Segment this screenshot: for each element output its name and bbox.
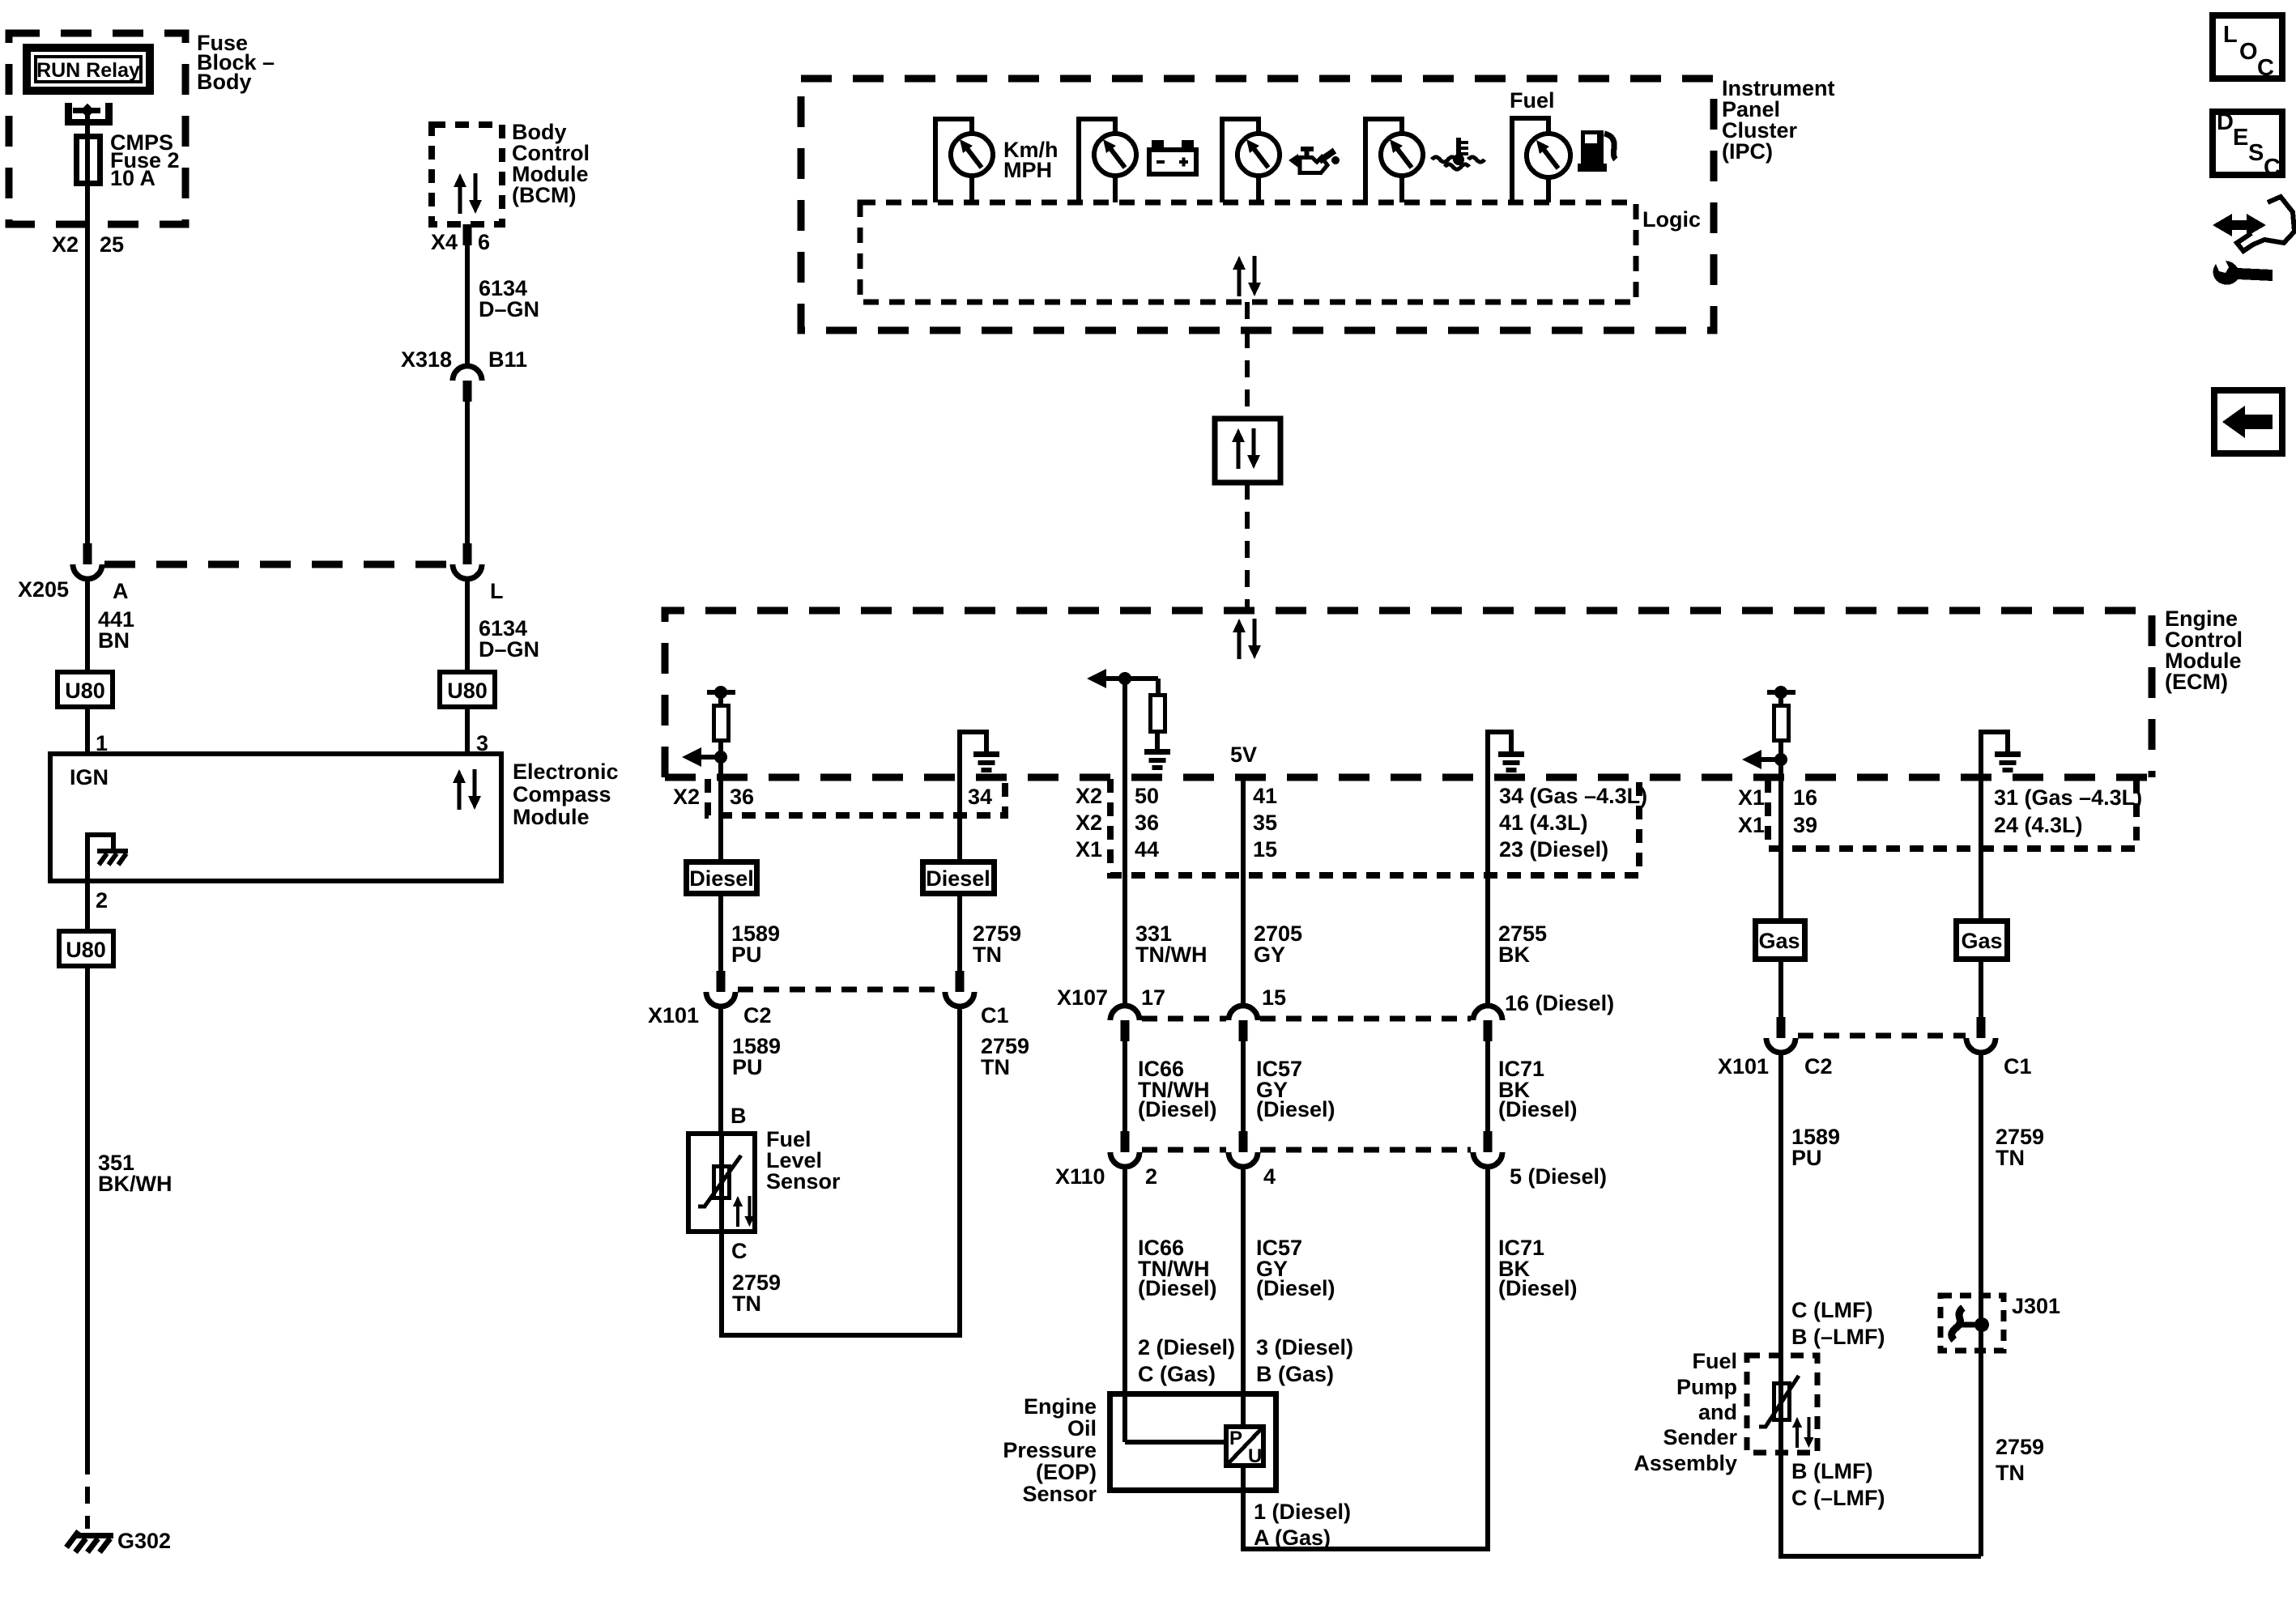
svg-text:Module: Module <box>513 805 590 829</box>
wire IC57 GY jumper <box>1241 1040 1246 1133</box>
svg-text:B (LMF): B (LMF) <box>1791 1459 1872 1483</box>
svg-text:Assembly: Assembly <box>1634 1451 1737 1475</box>
resistor in ECM wire 1589 left <box>707 690 735 695</box>
svg-text:16: 16 <box>1793 785 1817 810</box>
svg-text:Body: Body <box>197 70 252 94</box>
svg-text:L: L <box>490 579 504 603</box>
data arrows inside compass module <box>453 769 481 810</box>
svg-text:BK/WH: BK/WH <box>98 1172 172 1196</box>
wire into P/U transducer <box>1125 1440 1224 1445</box>
dashed data wire interface to ECM <box>1245 483 1250 611</box>
svg-text:C (Gas): C (Gas) <box>1138 1362 1216 1386</box>
internal ground at ECM 2755 wire <box>1488 732 1511 777</box>
serial data interface box <box>1215 419 1280 483</box>
wire 351 BK/WH <box>85 966 90 1457</box>
connector X107 pin 15 <box>1229 1006 1258 1041</box>
connector X318 <box>453 366 482 402</box>
wire 331 TN/WH to X107 <box>1122 777 1127 1006</box>
svg-text:TN: TN <box>1996 1146 2025 1170</box>
X107 dashed link 1 <box>1142 1016 1226 1022</box>
wire 441 BN lower <box>85 578 90 672</box>
X101 right dashed link <box>1798 1033 1966 1039</box>
relay RUN Relay <box>27 48 150 91</box>
gauge oil pressure <box>1222 119 1259 202</box>
svg-text:3: 3 <box>476 731 488 755</box>
module Electronic Compass Module box <box>50 754 501 881</box>
svg-text:E: E <box>2233 125 2248 151</box>
svg-text:U80: U80 <box>447 679 488 703</box>
data arrows inside interface box <box>1232 428 1260 469</box>
svg-text:B (Gas): B (Gas) <box>1256 1362 1334 1386</box>
svg-text:Fuel: Fuel <box>1692 1349 1737 1373</box>
svg-text:50: 50 <box>1135 784 1159 808</box>
connector X110 pin 4 <box>1229 1131 1258 1167</box>
internal ground wire of compass module <box>87 835 113 881</box>
wire 1589 PU right to Gas box <box>1778 777 1783 918</box>
DTC box U80 left <box>58 672 113 707</box>
connector X101 C1 right <box>1966 1017 1996 1053</box>
svg-text:15: 15 <box>1262 985 1286 1010</box>
icon back arrow box <box>2214 390 2282 453</box>
variable resistor inside fuel pump assembly <box>1778 1355 1783 1453</box>
svg-text:6: 6 <box>478 230 490 254</box>
svg-text:G302: G302 <box>117 1529 171 1553</box>
svg-text:X4: X4 <box>431 230 458 254</box>
variable resistor inside fuel level sensor <box>719 1134 724 1234</box>
svg-text:X107: X107 <box>1057 985 1108 1010</box>
connector X107 pin 17 <box>1110 1006 1139 1041</box>
svg-text:23 (Diesel): 23 (Diesel) <box>1499 837 1608 862</box>
svg-text:10 A: 10 A <box>110 166 155 190</box>
svg-text:U80: U80 <box>66 938 106 962</box>
fuse block - body dashed box <box>9 33 185 224</box>
svg-text:C: C <box>2264 155 2281 181</box>
svg-text:PU: PU <box>732 1055 763 1079</box>
wire 2759 TN right to Gas box <box>1979 777 1983 918</box>
wire 6134 D-GN upper <box>465 243 470 366</box>
connector X101 C2 left <box>706 971 735 1006</box>
svg-text:D–GN: D–GN <box>479 297 539 321</box>
wire 2759 TN return from sensor <box>722 1006 960 1335</box>
svg-text:D–GN: D–GN <box>479 637 539 662</box>
wire to X101 C2 right <box>1778 959 1783 1018</box>
svg-text:Sensor: Sensor <box>766 1169 841 1194</box>
fuse clip terminal <box>65 103 72 126</box>
arrows inside fuel level sensor <box>733 1196 755 1227</box>
svg-text:34: 34 <box>968 785 992 809</box>
svg-text:16 (Diesel): 16 (Diesel) <box>1505 991 1614 1015</box>
data arrows in logic box <box>1233 256 1261 296</box>
svg-text:(Diesel): (Diesel) <box>1138 1276 1217 1300</box>
svg-text:25: 25 <box>100 232 124 257</box>
svg-text:and: and <box>1698 1400 1737 1424</box>
svg-text:TN/WH: TN/WH <box>1135 943 1207 967</box>
svg-text:5 (Diesel): 5 (Diesel) <box>1510 1164 1607 1189</box>
svg-text:44: 44 <box>1135 837 1159 862</box>
svg-text:Fuel: Fuel <box>1510 88 1555 113</box>
svg-text:TN: TN <box>981 1055 1010 1079</box>
svg-text:Gas: Gas <box>1758 929 1800 953</box>
svg-text:Diesel: Diesel <box>689 866 754 891</box>
svg-text:1 (Diesel): 1 (Diesel) <box>1254 1500 1351 1524</box>
svg-text:Engine: Engine <box>1024 1394 1097 1419</box>
wire bottom return link <box>1781 1453 1981 1556</box>
sensor Fuel Level Sensor box <box>688 1134 755 1232</box>
dashed data wire IPC to interface <box>1245 302 1250 419</box>
module ECM dashed box <box>665 611 2152 777</box>
wire 2759 TN down right <box>1979 1052 1983 1556</box>
connector X101 C1 left <box>945 971 974 1006</box>
wire IC71 BK jumper <box>1485 1040 1490 1133</box>
svg-text:S: S <box>2248 140 2264 166</box>
logic dashed box <box>860 202 1636 302</box>
svg-text:X1: X1 <box>1738 785 1765 810</box>
svg-text:Compass: Compass <box>513 782 611 806</box>
svg-text:(Diesel): (Diesel) <box>1498 1097 1578 1121</box>
svg-text:A (Gas): A (Gas) <box>1254 1526 1331 1550</box>
svg-text:5V: 5V <box>1230 743 1257 767</box>
svg-text:B11: B11 <box>488 347 527 372</box>
Diesel flag box right <box>923 862 995 894</box>
svg-text:BN: BN <box>98 628 130 653</box>
svg-text:J301: J301 <box>2012 1294 2060 1318</box>
chassis ground inside compass module <box>97 851 128 865</box>
Gas flag box left <box>1756 921 1805 960</box>
svg-text:4: 4 <box>1263 1164 1276 1189</box>
icon connector end view with wrench <box>2213 197 2294 285</box>
svg-text:C (LMF): C (LMF) <box>1791 1298 1872 1322</box>
svg-text:X2: X2 <box>673 785 700 809</box>
svg-text:C1: C1 <box>981 1003 1009 1028</box>
X110 dashed link 1 <box>1142 1147 1226 1153</box>
DTC box U80 bottom <box>59 931 113 966</box>
svg-text:Pump: Pump <box>1676 1375 1737 1399</box>
svg-text:(Diesel): (Diesel) <box>1498 1276 1578 1300</box>
connector X110 pin 2 <box>1110 1131 1139 1167</box>
svg-text:A: A <box>113 579 129 603</box>
svg-text:MPH: MPH <box>1003 158 1052 182</box>
svg-text:B (–LMF): B (–LMF) <box>1791 1325 1885 1349</box>
wire to pin 3 <box>465 707 470 754</box>
wire IC66 TN/WH jumper <box>1122 1040 1127 1133</box>
fuel pump assembly dashed box <box>1747 1355 1817 1453</box>
internal ground at ECM pin 34 <box>960 732 986 777</box>
svg-text:X1: X1 <box>1738 813 1765 837</box>
wire 1589 PU with label <box>718 894 723 972</box>
svg-text:C: C <box>2257 55 2274 81</box>
ECM bottom dashed line <box>665 774 2152 781</box>
wire EOP output to 2755 <box>1243 1166 1488 1549</box>
BCM output terminal stub <box>463 224 472 245</box>
Gas flag box right <box>1957 921 2008 960</box>
connector X205 dashed link <box>104 561 451 568</box>
svg-text:X318: X318 <box>401 347 452 372</box>
data arrows inside ECM top <box>1233 619 1261 659</box>
svg-text:(BCM): (BCM) <box>512 183 576 207</box>
wire from X205 L to U80 <box>465 578 470 672</box>
svg-text:15: 15 <box>1253 837 1277 862</box>
wire pin2 to U80 <box>85 881 90 931</box>
icon battery <box>1149 150 1196 174</box>
data arrows inside BCM <box>454 173 482 214</box>
svg-text:35: 35 <box>1253 811 1277 835</box>
icon fuel pump <box>1578 130 1616 172</box>
svg-text:36: 36 <box>1135 811 1159 835</box>
module IPC dashed box <box>801 79 1714 330</box>
svg-text:2: 2 <box>96 888 108 913</box>
svg-text:X2: X2 <box>1076 811 1102 835</box>
connector X110 pin 5 <box>1473 1131 1502 1167</box>
connector X101 C2 right <box>1766 1017 1795 1053</box>
X107 dashed link 2 <box>1260 1016 1471 1022</box>
svg-text:(Diesel): (Diesel) <box>1256 1097 1335 1121</box>
sensor EOP box <box>1110 1394 1276 1491</box>
svg-text:Oil: Oil <box>1067 1416 1097 1440</box>
svg-text:RUN Relay: RUN Relay <box>36 59 140 82</box>
connector X107 pin 16 <box>1473 1006 1502 1041</box>
svg-text:2759: 2759 <box>1996 1435 2044 1459</box>
splice J301 symbol <box>1952 1308 1963 1340</box>
svg-text:24 (4.3L): 24 (4.3L) <box>1994 813 2083 837</box>
icon coolant temperature <box>1432 138 1485 169</box>
splice J301 dashed box <box>1940 1296 2004 1351</box>
svg-text:C2: C2 <box>1804 1054 1833 1079</box>
svg-text:39: 39 <box>1793 813 1817 837</box>
svg-text:(EOP): (EOP) <box>1036 1460 1097 1484</box>
junction dot and off-page arrow right <box>1774 753 1787 766</box>
svg-text:(Diesel): (Diesel) <box>1256 1276 1335 1300</box>
svg-text:TN: TN <box>732 1291 761 1316</box>
svg-text:B: B <box>731 1104 747 1128</box>
wire 331 TN/WH inside ECM <box>1122 679 1127 777</box>
svg-text:Sender: Sender <box>1663 1425 1737 1449</box>
svg-text:X101: X101 <box>1718 1054 1769 1079</box>
Diesel flag box left <box>687 862 757 894</box>
svg-text:PU: PU <box>731 943 762 967</box>
connector box X2 left below ECM <box>708 779 1005 815</box>
gauge voltmeter <box>1079 119 1115 202</box>
svg-text:C (–LMF): C (–LMF) <box>1791 1486 1885 1510</box>
gauge fuel <box>1512 118 1548 202</box>
wire 2705 GY to X107 <box>1241 777 1246 1006</box>
svg-text:GY: GY <box>1254 943 1285 967</box>
svg-text:C2: C2 <box>743 1003 772 1028</box>
svg-text:X110: X110 <box>1055 1164 1105 1189</box>
svg-text:Electronic: Electronic <box>513 760 619 784</box>
internal ground at ECM pin 31/24 <box>1981 732 2008 777</box>
icon oil can <box>1289 147 1340 173</box>
fuse CMPS Fuse 2 10 A <box>77 137 100 184</box>
wire 6134 D-GN lower <box>465 402 470 544</box>
svg-text:O: O <box>2239 39 2258 65</box>
svg-text:2: 2 <box>1145 1164 1157 1189</box>
wire 2759 TN with label <box>957 894 962 972</box>
connector X205 terminal L <box>453 543 482 579</box>
wire 2755 BK to X107 <box>1485 777 1490 1006</box>
icon LOC box <box>2213 15 2282 79</box>
svg-text:X1: X1 <box>1076 837 1102 862</box>
svg-text:TN: TN <box>973 943 1002 967</box>
svg-text:(Diesel): (Diesel) <box>1138 1097 1217 1121</box>
svg-text:Pressure: Pressure <box>1003 1438 1097 1462</box>
wire 441 from fuse clip to X205 <box>85 111 90 544</box>
svg-text:P: P <box>1229 1428 1242 1449</box>
svg-text:X205: X205 <box>18 577 69 602</box>
wire 2759 TN to Diesel box <box>957 777 962 859</box>
X101 left dashed link <box>738 987 943 993</box>
svg-text:31 (Gas –4.3L): 31 (Gas –4.3L) <box>1994 785 2142 810</box>
connector box middle below ECM <box>1110 779 1639 875</box>
module BCM dashed box <box>432 125 502 224</box>
wire IC66 to EOP sensor <box>1122 1166 1127 1442</box>
wire to pin 1 <box>85 707 90 754</box>
svg-text:Logic: Logic <box>1642 207 1701 232</box>
svg-text:36: 36 <box>730 785 754 809</box>
ground G302 <box>75 1533 113 1538</box>
svg-text:34 (Gas –4.3L): 34 (Gas –4.3L) <box>1499 784 1647 808</box>
svg-text:Diesel: Diesel <box>926 866 990 891</box>
svg-text:U: U <box>1248 1445 1262 1467</box>
wire IC57 to EOP sensor <box>1241 1166 1246 1427</box>
svg-text:IGN: IGN <box>70 765 109 789</box>
junction arrow and resistor for wire 331 <box>1087 669 1106 688</box>
wire to X101 C1 right <box>1979 959 1983 1018</box>
svg-text:D: D <box>2217 109 2234 135</box>
svg-text:X2: X2 <box>52 232 79 257</box>
svg-text:TN: TN <box>1996 1461 2025 1485</box>
svg-text:X101: X101 <box>648 1003 699 1028</box>
svg-text:U80: U80 <box>65 679 105 703</box>
transducer P/U <box>1226 1427 1263 1466</box>
gauge speedometer <box>935 119 972 202</box>
svg-text:41 (4.3L): 41 (4.3L) <box>1499 811 1588 835</box>
X110 dashed link 2 <box>1260 1147 1471 1153</box>
arrows inside fuel pump assembly <box>1792 1417 1814 1448</box>
svg-text:C: C <box>731 1239 748 1263</box>
wire 1589 PU to fuel pump <box>1778 1052 1783 1355</box>
svg-text:17: 17 <box>1141 985 1165 1010</box>
svg-text:(IPC): (IPC) <box>1722 139 1773 164</box>
svg-text:L: L <box>2223 22 2238 48</box>
connector box X1 right below ECM <box>1768 779 2136 849</box>
svg-text:41: 41 <box>1253 784 1277 808</box>
DTC box U80 right <box>440 672 495 707</box>
svg-text:2 (Diesel): 2 (Diesel) <box>1138 1335 1235 1360</box>
wire 1589 PU to Diesel box <box>718 777 723 859</box>
icon DESC box <box>2213 112 2282 175</box>
resistor in ECM wire 1589 right <box>1767 690 1795 695</box>
wire 1589 PU to sensor <box>718 1006 723 1131</box>
svg-text:X2: X2 <box>1076 784 1102 808</box>
svg-text:C1: C1 <box>2004 1054 2032 1079</box>
svg-text:Sensor: Sensor <box>1022 1482 1097 1506</box>
svg-text:BK: BK <box>1498 943 1530 967</box>
svg-text:(ECM): (ECM) <box>2165 670 2228 694</box>
svg-text:Gas: Gas <box>1961 929 2002 953</box>
svg-text:PU: PU <box>1791 1146 1822 1170</box>
gauge coolant temp <box>1365 119 1402 202</box>
connector X205 terminal A <box>73 543 102 579</box>
dashed wire to G302 <box>85 1457 90 1529</box>
junction dot and off-page arrow left <box>714 751 727 764</box>
svg-text:3 (Diesel): 3 (Diesel) <box>1256 1335 1353 1360</box>
